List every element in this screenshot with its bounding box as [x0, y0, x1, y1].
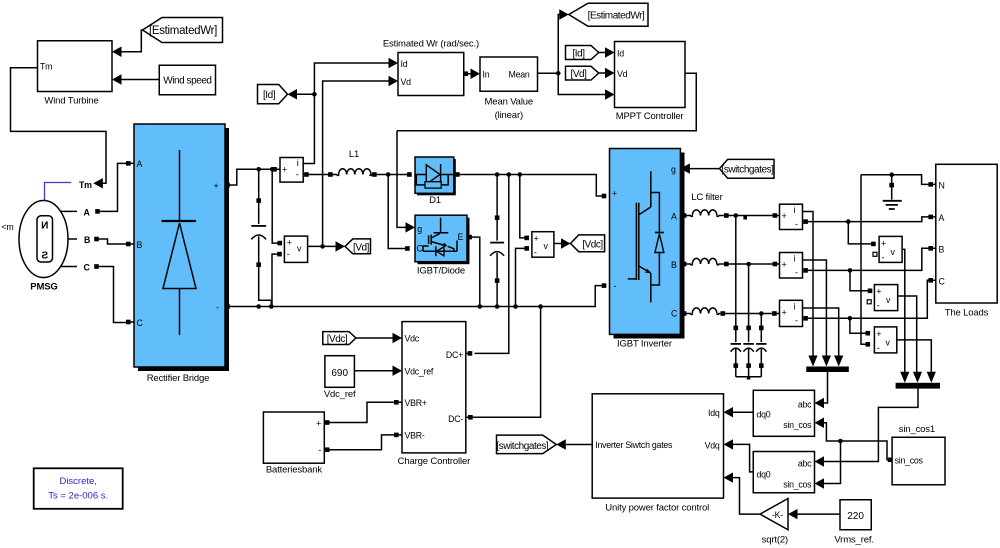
svg-text:C: C	[137, 318, 144, 328]
SECTION: rectifier	[126, 58, 602, 384]
block MPPT Controller	[615, 42, 686, 123]
svg-text:A: A	[84, 207, 91, 217]
wire v+ up to + rail	[272, 169, 280, 243]
port squares inverter	[602, 194, 607, 199]
diode symbol inside rectifier	[179, 150, 181, 221]
constant 220 / Vrms_ref	[834, 500, 873, 546]
bottom dc rail	[230, 286, 602, 307]
svg-text:abc: abc	[798, 400, 812, 410]
svg-text:dq0: dq0	[757, 410, 771, 420]
svg-text:MPPT Controller: MPPT Controller	[616, 111, 684, 122]
wire 220 to gain	[798, 513, 841, 515]
junction v+ top	[270, 167, 275, 172]
wire phase B to i	[728, 263, 772, 265]
machine PMSG	[19, 201, 68, 293]
svg-text:Mean Value: Mean Value	[485, 97, 534, 108]
block dq0 transform 1	[753, 390, 814, 436]
wire dq0-1 out to Idq	[733, 411, 753, 413]
svg-text:sin_cos: sin_cos	[783, 480, 812, 490]
svg-text:+: +	[287, 238, 292, 248]
svg-text:B: B	[671, 260, 677, 270]
wire i signal out up to estimator Id	[303, 63, 389, 164]
svg-text:DC+: DC+	[446, 350, 463, 360]
block Unity power factor control	[592, 394, 723, 514]
wire [Vdc] to charge controller	[356, 337, 393, 339]
svg-text:Vrms_ref.: Vrms_ref.	[834, 535, 873, 546]
svg-text:Tm: Tm	[79, 180, 92, 190]
svg-text:[EstimatedWr]: [EstimatedWr]	[588, 10, 645, 21]
svg-text:[Id]: [Id]	[572, 48, 585, 59]
svg-text:[EstimatedWr]: [EstimatedWr]	[149, 25, 217, 37]
from tag [Vdc]	[323, 332, 356, 345]
capacitor LC C	[756, 314, 766, 377]
wire phase B to loads B	[808, 248, 929, 270]
svg-text:sin_cos: sin_cos	[895, 456, 924, 466]
wire MPPT output loop to IGBT gate	[397, 73, 696, 131]
wire Wind speed to Wind Turbine input 2	[112, 74, 159, 84]
gain sqrt(2)	[760, 499, 788, 546]
svg-text:g: g	[671, 165, 676, 175]
wire [EstimatedWr] to Wind Turbine input 1	[112, 30, 143, 57]
SECTION: powergui	[34, 468, 123, 509]
svg-text:VBR-: VBR-	[405, 431, 425, 441]
svg-text:<m: <m	[2, 222, 14, 232]
SECTION: estimator	[383, 3, 696, 131]
svg-text:[Vd]: [Vd]	[353, 242, 370, 253]
wire v out to goto [Vdc]	[554, 243, 561, 245]
wire vA out to mux2	[902, 249, 905, 372]
voltage measurement v (dc link)	[524, 232, 554, 258]
port C of PMSG	[61, 263, 99, 273]
svg-text:Vdq: Vdq	[705, 441, 720, 451]
arrowhead gate input	[680, 163, 690, 173]
svg-text:i: i	[794, 205, 796, 215]
svg-text:[Vdc]: [Vdc]	[582, 240, 603, 251]
block powergui Discrete	[34, 468, 123, 509]
svg-text:i: i	[794, 302, 796, 312]
svg-text:A: A	[137, 159, 143, 169]
svg-text:Estimated Wr (rad/sec.): Estimated Wr (rad/sec.)	[383, 39, 479, 50]
from tag [Vd]	[566, 66, 599, 80]
svg-text:abc: abc	[798, 459, 812, 469]
wire i- to L1	[309, 174, 331, 176]
svg-text:B: B	[939, 245, 945, 255]
wire sin_cos1 to dq0 sin_cos inputs	[824, 423, 888, 460]
svg-text:Discrete,: Discrete,	[59, 476, 96, 487]
port squares rectifier outputs	[225, 183, 230, 188]
current measurement i phase A	[773, 204, 808, 229]
goto tag [EstimatedWr]	[569, 3, 648, 26]
svg-text:C: C	[84, 263, 91, 273]
capacitor C1 branch	[251, 169, 271, 306]
wire v+ to + rail	[518, 172, 525, 238]
junction IGBT collector tap	[386, 172, 391, 177]
wire PMSG A to rectifier A	[100, 163, 127, 211]
capacitor C2 branch	[490, 172, 504, 309]
svg-text:-: -	[795, 316, 798, 326]
SECTION: pmsg	[2, 163, 127, 322]
svg-text:Batteriesbank: Batteriesbank	[266, 465, 323, 476]
wire unity output to [switchgates]	[566, 444, 592, 446]
block Estimated Wr	[383, 39, 479, 96]
wire battery - to VBR-	[329, 435, 394, 450]
SECTION: inverter	[602, 149, 774, 380]
block Rectifier Bridge	[134, 124, 229, 384]
svg-text:Id: Id	[617, 49, 624, 59]
SECTION: loads	[772, 164, 997, 466]
svg-text:-: -	[216, 303, 219, 313]
mux1 currents	[806, 356, 849, 373]
svg-text:L1: L1	[349, 149, 359, 160]
svg-text:S: S	[41, 251, 48, 262]
svg-text:Ts = 2e-006 s.: Ts = 2e-006 s.	[48, 491, 108, 502]
wire [Id] to MPPT	[599, 52, 606, 54]
svg-text:[Vd]: [Vd]	[571, 69, 588, 80]
svg-text:Wind speed: Wind speed	[163, 76, 211, 87]
wire phase C to loads C	[808, 280, 929, 318]
svg-text:+: +	[214, 181, 219, 191]
capacitor LC B	[743, 264, 753, 377]
svg-text:Vd: Vd	[401, 77, 412, 87]
wire phase C to i	[725, 313, 772, 315]
diode D1	[407, 157, 460, 206]
wire branch up to goto [EstimatedWr]	[558, 15, 560, 74]
svg-text:LC filter: LC filter	[691, 192, 722, 203]
svg-text:In: In	[483, 70, 490, 80]
wire switchgates to g	[690, 168, 720, 170]
block Wind Turbine	[38, 41, 113, 107]
svg-text:Wind Turbine: Wind Turbine	[44, 96, 98, 107]
inductor LC phase C	[682, 308, 725, 316]
svg-text:i: i	[794, 254, 796, 264]
svg-text:+: +	[612, 189, 617, 199]
svg-text:-: -	[877, 301, 880, 311]
block Mean Value	[480, 57, 538, 121]
svg-text:B: B	[84, 235, 90, 245]
svg-text:[Vdc]: [Vdc]	[327, 334, 348, 345]
svg-text:Charge Controller: Charge Controller	[398, 456, 470, 467]
SECTION: control	[263, 322, 945, 546]
svg-text:+: +	[782, 260, 787, 270]
svg-text:-K-: -K-	[772, 510, 783, 520]
svg-text:dq0: dq0	[757, 470, 771, 480]
voltage measurement v phase C	[866, 327, 897, 353]
svg-text:-: -	[534, 248, 537, 258]
svg-text:-: -	[795, 268, 798, 278]
wire iC signal to mux1	[803, 308, 839, 357]
svg-text:-: -	[287, 249, 290, 259]
current measurement i (dc)	[272, 158, 309, 183]
inductor L1	[328, 149, 377, 177]
from tag [EstimatedWr] (mirrored)	[143, 18, 223, 43]
port B of PMSG	[68, 235, 99, 245]
constant 690	[324, 356, 356, 400]
svg-text:i: i	[297, 158, 299, 168]
svg-text:g: g	[417, 224, 422, 234]
svg-text:[switchgates]: [switchgates]	[496, 441, 549, 452]
wire estimator to mean value	[468, 73, 472, 75]
svg-text:A: A	[939, 213, 945, 223]
svg-text:VBR+: VBR+	[405, 398, 427, 408]
svg-text:C: C	[671, 309, 678, 319]
svg-text:D1: D1	[429, 195, 441, 206]
goto tag [Vdc]	[571, 235, 605, 252]
wire phase A to i	[728, 215, 772, 217]
svg-text:Idq: Idq	[708, 408, 720, 418]
svg-text:N: N	[939, 181, 945, 191]
junction Vd signal	[320, 244, 325, 249]
wire DC+ from charge controller up to + rail	[475, 172, 512, 353]
svg-text:C: C	[939, 277, 946, 287]
svg-text:Id: Id	[401, 59, 408, 69]
svg-text:+: +	[534, 234, 539, 244]
svg-text:Vdc: Vdc	[405, 334, 420, 344]
svg-text:-: -	[614, 281, 617, 291]
wire cap common	[736, 376, 762, 378]
svg-text:A: A	[671, 212, 677, 222]
junction cap1 top	[256, 167, 261, 172]
svg-text:Rectifier Bridge: Rectifier Bridge	[147, 373, 210, 384]
svg-text:[switchgates]: [switchgates]	[722, 164, 775, 175]
svg-text:sin_cos: sin_cos	[783, 420, 812, 430]
block The Loads	[928, 164, 997, 318]
svg-text:IGBT/Diode: IGBT/Diode	[417, 266, 465, 277]
wire iA signal to mux1	[803, 212, 814, 357]
svg-text:-: -	[882, 253, 885, 263]
wire phase A to loads A	[808, 217, 929, 222]
voltage measurement v phase A	[871, 236, 902, 262]
svg-text:+: +	[316, 419, 321, 429]
mux2 voltages	[896, 372, 940, 389]
svg-text:Vdc_ref: Vdc_ref	[405, 367, 434, 377]
svg-text:+: +	[876, 287, 881, 297]
svg-text:Mean: Mean	[509, 70, 530, 80]
wire phase B tap to vB+	[850, 270, 868, 290]
svg-text:Unity power factor control: Unity power factor control	[605, 503, 709, 514]
svg-text:sin_cos1: sin_cos1	[899, 424, 935, 435]
wire dq0-2 out to Vdq	[733, 444, 753, 472]
wire PMSG C to rectifier C	[99, 267, 127, 323]
wire gain out to unity input 3	[733, 478, 760, 514]
wire E to - rail	[472, 237, 480, 306]
svg-text:+: +	[881, 239, 886, 249]
from tag [switchgates]	[720, 159, 775, 178]
svg-text:-: -	[296, 170, 299, 180]
goto tag [switchgates]	[496, 435, 556, 454]
dc bus D1 to inverter +	[459, 175, 602, 197]
svg-text:-: -	[795, 219, 798, 229]
wire branch down to MPPT input 3	[558, 73, 605, 94]
svg-text:[Id]: [Id]	[263, 90, 276, 101]
svg-text:Inverter Siwtch gates: Inverter Siwtch gates	[595, 440, 673, 450]
igbt symbol	[434, 218, 449, 233]
svg-text:Vdc_ref: Vdc_ref	[324, 389, 356, 400]
wire rectifier + to current measurement	[230, 169, 276, 185]
svg-text:PMSG: PMSG	[30, 282, 57, 293]
SECTION: wind turbine	[11, 18, 223, 189]
block dq0 transform 2	[753, 452, 814, 493]
inductor LC phase A	[682, 210, 729, 218]
wire mux2 out to dq0-2 abc	[824, 389, 918, 462]
block Batteriesbank	[263, 412, 329, 476]
wire mux1 out to dq0-1 abc	[824, 372, 828, 403]
block Wind speed	[159, 65, 215, 95]
svg-text:B: B	[137, 240, 143, 250]
wire Wind Turbine Tm output to PMSG Tm	[11, 68, 107, 189]
ground	[883, 175, 902, 209]
wire neutral	[861, 175, 929, 185]
goto tag [Id]	[258, 85, 288, 104]
wire v- to - rail	[513, 248, 524, 308]
inductor LC phase B	[682, 258, 729, 266]
svg-text:N: N	[41, 221, 48, 232]
port squares rectifier inputs	[126, 161, 131, 166]
svg-text:-: -	[318, 445, 321, 455]
wire gate from MPPT loop	[397, 131, 406, 228]
junction Id branch	[312, 92, 317, 97]
svg-text:-: -	[877, 343, 880, 353]
wire v out to goto [Vd]	[308, 245, 336, 247]
block sin_cos1	[888, 424, 945, 485]
svg-text:E: E	[458, 232, 464, 242]
svg-text:+: +	[782, 308, 787, 318]
wire battery + to VBR+	[329, 402, 394, 422]
block IGBT/Diode	[405, 215, 472, 276]
svg-text:+: +	[876, 329, 881, 339]
svg-text:220: 220	[847, 511, 864, 522]
svg-text:DC-: DC-	[448, 414, 463, 424]
capacitor LC A	[731, 216, 741, 377]
wire mean out with branches	[538, 72, 559, 74]
wire to IGBT C	[388, 175, 405, 249]
svg-text:Vd: Vd	[617, 69, 628, 79]
wire [Vd] to MPPT	[599, 72, 606, 74]
wire 690 to charge controller	[354, 370, 392, 372]
svg-text:Tm: Tm	[40, 62, 52, 72]
voltage measurement v (dc rectifier)	[277, 236, 307, 262]
wire Vd up to estimator Vd	[323, 81, 390, 246]
wire phase C tap to vC+	[850, 318, 866, 333]
goto tag [Vd]	[345, 239, 371, 254]
wire v- down to - rail	[272, 254, 279, 306]
svg-text:The Loads: The Loads	[945, 308, 989, 319]
block Charge Controller	[394, 322, 473, 467]
wire DC- from charge controller to - rail	[472, 304, 542, 417]
svg-text:(linear): (linear)	[495, 110, 523, 121]
wire PMSG B to rectifier B	[99, 239, 127, 244]
svg-text:690: 690	[331, 368, 348, 379]
wire phase A tap to vA+	[848, 222, 871, 244]
dc bus wire L1 to D1	[377, 174, 408, 176]
wire vB out to mux2	[898, 296, 917, 373]
svg-text:+: +	[782, 211, 787, 221]
svg-text:+: +	[282, 164, 287, 174]
current measurement i phase C	[772, 300, 808, 326]
node Tm (blue port line)	[45, 183, 72, 201]
wire vC out to mux2	[897, 340, 932, 373]
from tag [Id]	[566, 46, 599, 60]
SECTION: dclink	[397, 131, 605, 418]
wire to goto [Id]	[297, 93, 314, 95]
svg-text:IGBT Inverter: IGBT Inverter	[617, 339, 672, 350]
inverter internal igbt/diode art	[651, 171, 660, 232]
svg-text:sqrt(2): sqrt(2)	[762, 535, 788, 546]
wire vC- to neutral	[861, 175, 866, 345]
wire iB signal to mux1	[803, 260, 827, 357]
voltage measurement v phase B	[867, 285, 898, 311]
block IGBT Inverter	[610, 149, 685, 350]
port A of PMSG	[61, 207, 100, 217]
current measurement i phase B	[773, 253, 808, 279]
